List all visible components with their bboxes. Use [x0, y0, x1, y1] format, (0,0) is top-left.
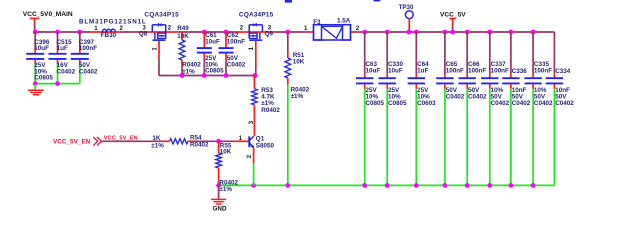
svg-text:1K: 1K [152, 135, 161, 142]
svg-text:C0805: C0805 [388, 100, 407, 107]
svg-text:±1%: ±1% [219, 186, 232, 193]
svg-text:F3: F3 [313, 19, 321, 26]
svg-text:R49: R49 [177, 25, 189, 32]
svg-text:CQA34P15: CQA34P15 [144, 12, 179, 19]
svg-text:10uF: 10uF [366, 68, 381, 75]
svg-text:C0402: C0402 [555, 100, 574, 107]
svg-text:TP30: TP30 [399, 4, 415, 11]
svg-text:C0402: C0402 [79, 68, 98, 75]
svg-text:100nF: 100nF [534, 68, 552, 75]
svg-text:BLM31PG121SN1L: BLM31PG121SN1L [79, 19, 147, 26]
svg-text:C0402: C0402 [227, 61, 246, 68]
svg-text:1uF: 1uF [57, 45, 68, 52]
svg-text:3: 3 [249, 120, 255, 124]
svg-text:10K: 10K [177, 33, 189, 40]
svg-text:R0402: R0402 [261, 107, 280, 114]
svg-text:C0805: C0805 [205, 68, 224, 75]
svg-text:±1%: ±1% [151, 143, 164, 150]
svg-text:C0402: C0402 [491, 100, 510, 107]
svg-text:GND: GND [213, 205, 227, 212]
svg-text:C0402: C0402 [534, 100, 553, 107]
svg-text:100nF: 100nF [446, 68, 464, 75]
svg-text:10K: 10K [293, 59, 305, 66]
svg-text:C0402: C0402 [468, 93, 487, 100]
svg-text:100nF: 100nF [468, 68, 486, 75]
svg-text:Q9: Q9 [265, 30, 274, 37]
svg-text:C0805: C0805 [34, 75, 53, 82]
svg-text:Q8: Q8 [139, 30, 148, 37]
svg-text:VCC_5V0_MAIN: VCC_5V0_MAIN [23, 11, 73, 18]
svg-text:10uF: 10uF [388, 68, 403, 75]
svg-text:100nF: 100nF [491, 68, 509, 75]
svg-text:R0402: R0402 [182, 61, 201, 68]
svg-text:VCC_5V_EN: VCC_5V_EN [53, 139, 91, 146]
svg-text:100nF: 100nF [227, 38, 245, 45]
svg-text:R0402: R0402 [190, 141, 209, 148]
svg-text:100nF: 100nF [79, 45, 97, 52]
svg-text:C336: C336 [512, 68, 528, 75]
svg-text:±1%: ±1% [291, 93, 304, 100]
svg-text:FB30: FB30 [101, 32, 117, 39]
svg-text:VCC_5V: VCC_5V [440, 11, 466, 18]
svg-text:C0603: C0603 [417, 100, 436, 107]
svg-text:VCC_5V_EN: VCC_5V_EN [104, 135, 138, 141]
svg-text:S8050: S8050 [256, 143, 275, 150]
svg-text:1uF: 1uF [417, 68, 428, 75]
svg-text:CQA34P15: CQA34P15 [239, 12, 274, 19]
svg-text:C0402: C0402 [446, 93, 465, 100]
svg-text:10uF: 10uF [205, 38, 220, 45]
svg-text:10uF: 10uF [34, 45, 49, 52]
svg-text:C0402: C0402 [512, 100, 531, 107]
svg-text:10K: 10K [220, 149, 232, 156]
svg-text:C334: C334 [555, 68, 571, 75]
svg-text:1.5A: 1.5A [337, 18, 351, 25]
svg-text:C0805: C0805 [366, 100, 385, 107]
svg-text:C0402: C0402 [57, 68, 76, 75]
